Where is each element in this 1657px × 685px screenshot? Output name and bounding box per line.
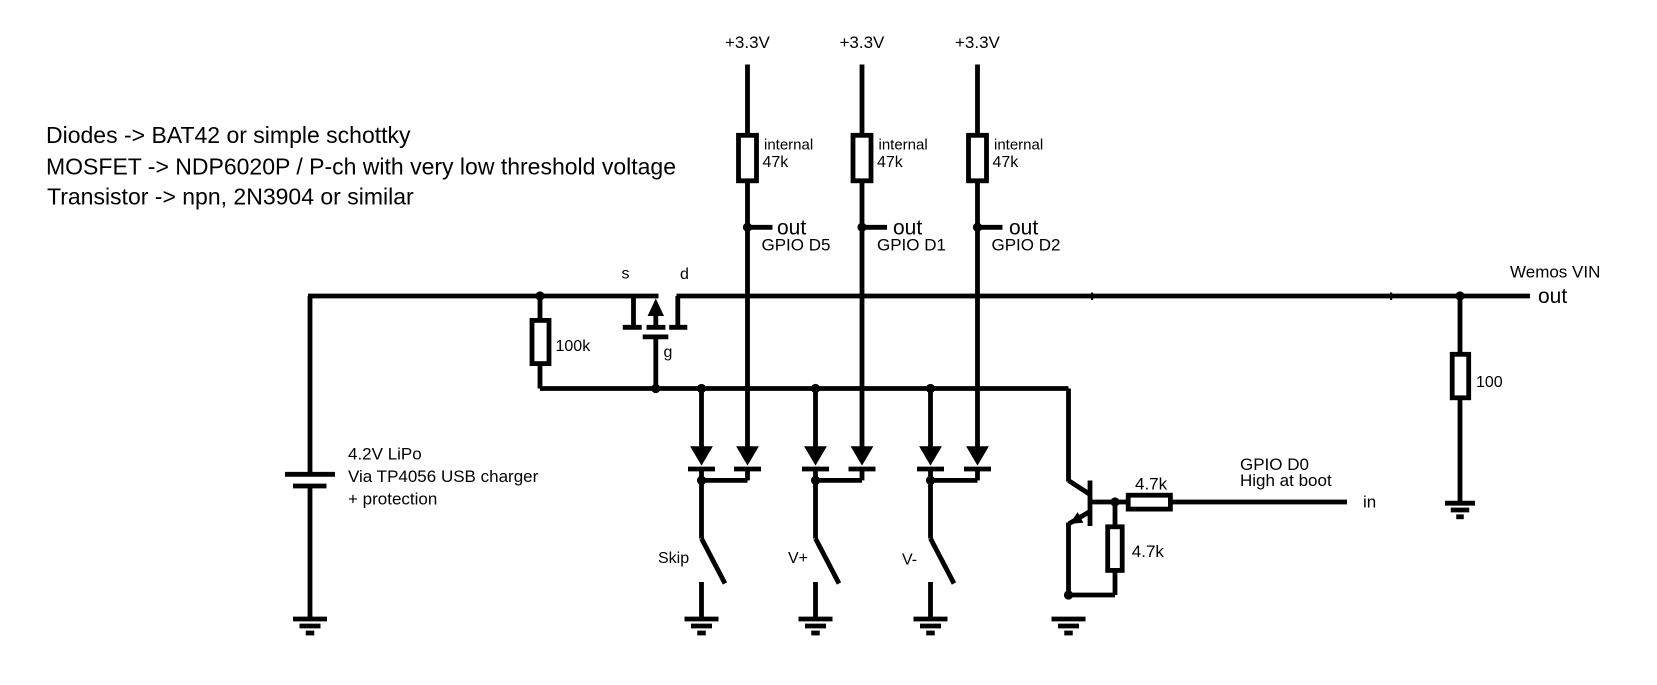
svg-text:+3.3V: +3.3V [725,33,771,52]
resistor internal 47k 3 [969,135,1044,181]
wire battery positive vertical [308,296,313,474]
wire collector drop vertical [1066,389,1071,482]
node header notes [46,122,676,210]
svg-text:d: d [680,266,689,283]
svg-text:Skip: Skip [658,550,689,567]
wire switch upper lead 3 [928,480,933,538]
wire left diode anode lead 1 [699,389,704,448]
diode D1 [688,446,715,469]
wire +3.3V rail 1 upper [745,65,750,136]
wire emitter to pulldown horizontal [1069,593,1116,598]
resistor 100 [1452,354,1503,398]
svg-text:s: s [622,266,630,283]
wire gate vertical [653,337,658,389]
wire +3.3V rail 3 lower (through out node down to diode) [975,181,980,448]
node junction dot bus-diode 3 [926,384,935,393]
resistor 4.7k pulldown [1108,527,1165,571]
wire left diode anode lead 3 [928,389,933,448]
node junction dot 100k top [535,291,544,300]
svg-text:47k: 47k [877,154,904,171]
node out junction dot 2 [857,223,866,232]
wire +3.3V rail 2 upper [860,65,865,136]
node junction dot diode pair 3 [926,476,935,485]
wire battery negative vertical [308,486,313,619]
svg-text:out: out [1538,285,1567,308]
svg-text:GPIO D5: GPIO D5 [762,236,831,255]
wire switch lower lead 2 [813,582,818,619]
ground [293,619,327,633]
wire left diode cathode lead 2 [813,469,818,480]
wire left diode cathode lead 3 [928,469,933,480]
node out junction dot 3 [973,223,982,232]
svg-text:+3.3V: +3.3V [955,33,1001,52]
wire switch upper lead 2 [813,480,818,538]
svg-text:+3.3V: +3.3V [840,33,886,52]
ground [799,619,833,633]
wire base resistor lead [1115,500,1129,505]
wire pulldown bottom lead [1113,570,1118,595]
wire right diode cathode lead 3 [975,469,980,480]
svg-text:internal: internal [764,137,813,154]
svg-text:internal: internal [879,137,928,154]
ground [1445,503,1475,517]
wire +3.3V rail 2 lower (through out node down to diode) [860,181,865,448]
wire diode pair connector 2 [816,478,863,483]
wire right diode cathode lead 1 [745,469,750,480]
node tick mark 2 [1390,293,1392,301]
transistor Q2 npn [1069,481,1091,527]
switch SW3 blade [931,539,955,584]
node out junction dot 1 [743,223,752,232]
svg-text:g: g [664,344,673,361]
wire left diode anode lead 2 [813,389,818,448]
wire out stub 2 [862,225,887,230]
node junction dot base [1110,497,1119,506]
wire switch lower lead 1 [699,582,704,619]
wire left diode cathode lead 1 [699,469,704,480]
svg-text:GPIO D1: GPIO D1 [877,236,946,255]
diode D3 [802,446,829,469]
ground [1052,619,1086,633]
wire emitter vertical [1066,523,1071,596]
resistor internal 47k 2 [853,135,928,181]
svg-text:in: in [1363,493,1376,512]
svg-text:4.2V LiPo: 4.2V LiPo [348,445,422,464]
svg-text:+ protection: + protection [348,490,437,509]
node junction dot emitter-ground [1064,590,1073,599]
svg-text:Via TP4056 USB charger: Via TP4056 USB charger [348,467,539,486]
node junction dot diode pair 2 [811,476,820,485]
switch SW2 blade [816,539,840,584]
svg-text:internal: internal [994,137,1043,154]
wire GPIO D0 line [1170,500,1347,505]
wire 100k bottom lead [538,364,543,389]
wire switch upper lead 1 [699,480,704,538]
svg-text:High at boot: High at boot [1240,471,1332,490]
wire gate bus B horizontal [540,386,1069,391]
wire 100k top lead [538,296,543,321]
node junction dot diode pair 1 [697,476,706,485]
node junction dot bus-diode 2 [811,384,820,393]
node junction dot Wemos VIN [1455,291,1464,300]
svg-text:100k: 100k [556,338,592,355]
wire +3.3V rail 1 lower (through out node down to diode) [745,181,750,448]
wire base lead [1090,500,1115,505]
node tick mark 1 [1091,293,1093,301]
svg-text:Diodes -> BAT42 or simple scho: Diodes -> BAT42 or simple schottky [46,122,411,148]
svg-text:4.7k: 4.7k [1132,542,1165,561]
wire +3.3V rail 3 upper [975,65,980,136]
resistor internal 47k 1 [739,135,814,181]
svg-text:4.7k: 4.7k [1135,475,1168,494]
wire pulldown top lead [1113,502,1118,527]
wire out stub 1 [748,225,773,230]
diode D6 [964,446,991,469]
switch SW1 blade [702,539,726,584]
node junction dot bus-diode 1 [697,384,706,393]
svg-text:Transistor -> npn, 2N3904 or s: Transistor -> npn, 2N3904 or similar [47,184,414,210]
svg-text:V-: V- [902,552,917,569]
svg-text:V+: V+ [788,550,808,567]
diode D4 [849,446,876,469]
ground [914,619,948,633]
svg-text:Wemos VIN: Wemos VIN [1510,263,1600,282]
wire main top rail A1 (battery to MOSFET source side) [308,294,659,299]
svg-text:100: 100 [1476,374,1503,391]
wire diode pair connector 1 [702,478,748,483]
node GPIO D0 label [1240,455,1332,490]
svg-text:GPIO D2: GPIO D2 [992,236,1061,255]
wire diode pair connector 3 [931,478,978,483]
diode D5 [917,446,944,469]
svg-text:MOSFET -> NDP6020P / P-ch with: MOSFET -> NDP6020P / P-ch with very low … [46,154,676,180]
node battery label [348,445,539,509]
battery BT1 4.2V LiPo [285,474,335,486]
wire 100 bottom lead [1458,396,1463,504]
svg-text:47k: 47k [993,154,1020,171]
diode D2 [734,446,761,469]
ground [685,619,719,633]
wire main top rail A2 (MOSFET drain to Wemos VIN out) [677,294,1531,299]
wire right diode cathode lead 2 [860,469,865,480]
svg-text:47k: 47k [763,154,790,171]
wire 100 top lead [1458,296,1463,355]
resistor 4.7k series [1128,475,1170,510]
wire out stub 3 [978,225,1003,230]
wire switch lower lead 3 [928,582,933,619]
node junction dot gate-bus [651,384,660,393]
transistor Q1 P-ch MOSFET [623,296,688,337]
resistor 100k [532,320,591,363]
